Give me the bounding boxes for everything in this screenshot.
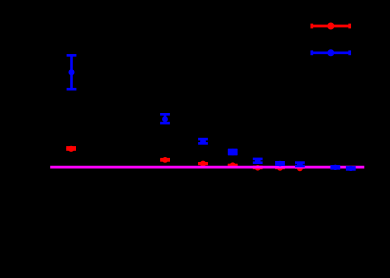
blue point B6 xyxy=(275,161,285,167)
blue point B7 xyxy=(295,161,305,167)
blue point B1 xyxy=(67,55,77,89)
blue point B8 xyxy=(330,165,340,170)
blue point B4 xyxy=(228,149,238,156)
blue point B2 xyxy=(160,114,170,123)
blue point B9 xyxy=(346,166,356,171)
red point R4 xyxy=(228,162,238,168)
blue point B3 xyxy=(198,138,208,144)
legend sample: red errorbar xyxy=(311,23,351,30)
red point R7 xyxy=(295,165,305,171)
red point R1 xyxy=(66,146,76,152)
legend sample: blue errorbar xyxy=(311,49,351,56)
magenta reference line xyxy=(50,166,364,169)
red point R3 xyxy=(198,161,208,167)
red point R2 xyxy=(160,157,170,163)
red point R6 xyxy=(275,165,285,171)
red errorbar series xyxy=(66,146,305,172)
blue errorbar series xyxy=(67,55,356,171)
blue point B5 xyxy=(253,158,263,164)
red point R5 xyxy=(253,165,263,171)
